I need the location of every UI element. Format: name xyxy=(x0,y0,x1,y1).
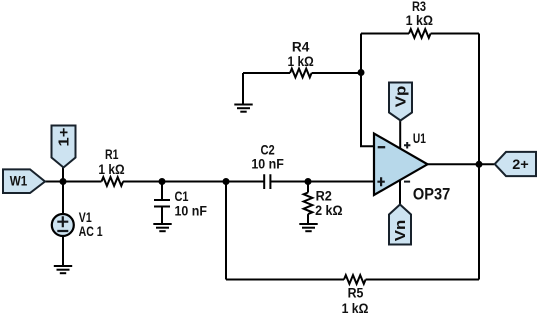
port W1 xyxy=(3,169,45,193)
svg-text:10 nF: 10 nF xyxy=(251,157,284,172)
wire R3 top right segment xyxy=(431,33,479,35)
svg-text:1+: 1+ xyxy=(57,128,73,147)
wire inverting input vertical xyxy=(361,34,374,147)
svg-text:R2: R2 xyxy=(316,189,332,204)
ground below R2 xyxy=(299,224,317,231)
wire V1 to ground xyxy=(62,236,64,266)
wire Vp supply pin xyxy=(399,121,401,150)
node junction R4/R3 xyxy=(358,69,365,76)
svg-text:W1: W1 xyxy=(10,174,28,189)
wire main signal line left of C2 xyxy=(44,181,264,183)
resistor R2 xyxy=(304,193,313,215)
svg-text:OP37: OP37 xyxy=(413,185,450,204)
svg-text:2+: 2+ xyxy=(512,157,529,172)
svg-text:U1: U1 xyxy=(413,131,426,146)
resistor R4 xyxy=(290,69,312,78)
op-amp U1 xyxy=(374,131,450,204)
svg-text:R4: R4 xyxy=(292,40,310,55)
node junction C1 xyxy=(159,178,166,185)
svg-text:C1: C1 xyxy=(175,189,189,204)
capacitor C1 xyxy=(154,200,170,207)
port Vn xyxy=(389,205,411,245)
op-amp negative supply pin marker xyxy=(404,181,410,183)
svg-text:1 kΩ: 1 kΩ xyxy=(406,13,433,28)
op-amp positive supply pin marker xyxy=(404,142,410,149)
svg-text:1 kΩ: 1 kΩ xyxy=(98,162,124,177)
wire R4 left leg to ground xyxy=(242,73,244,105)
ground below C1 xyxy=(153,224,171,231)
port 1+ xyxy=(52,126,76,168)
port 2+ xyxy=(495,152,536,176)
voltage source V1 xyxy=(52,210,103,239)
wire main signal line right of C2 to op-amp xyxy=(271,181,375,183)
op-amp inverting input marker xyxy=(378,146,386,148)
capacitor C2 xyxy=(264,174,270,189)
svg-text:C2: C2 xyxy=(260,142,274,157)
svg-text:AC 1: AC 1 xyxy=(79,224,103,239)
node A junction W1/V1 xyxy=(60,178,67,185)
wire op-amp output to 2+ port xyxy=(428,163,495,165)
wire R3 top left segment xyxy=(361,33,409,35)
wire bottom feedback left segment xyxy=(226,279,344,281)
wire vertical from 1+ port through node A to V1 xyxy=(62,168,64,215)
svg-text:Vn: Vn xyxy=(393,220,409,242)
resistor R1 xyxy=(102,177,124,186)
wire C1 branch xyxy=(161,182,163,225)
V1 polarity marks xyxy=(57,216,68,231)
svg-text:1 kΩ: 1 kΩ xyxy=(342,301,369,314)
node junction feedback tap xyxy=(223,178,230,185)
svg-text:V1: V1 xyxy=(79,210,92,225)
wire R4 horizontal xyxy=(243,72,361,74)
resistor R3 xyxy=(409,29,431,38)
ground below V1 xyxy=(54,266,72,273)
svg-text:R1: R1 xyxy=(105,147,119,162)
wire right vertical from R3 through output node to bottom feedback xyxy=(478,34,480,280)
op-amp non-inverting input marker xyxy=(377,177,384,186)
wire Vn supply pin xyxy=(399,180,401,206)
wire R2 branch xyxy=(307,182,309,225)
resistor R5 xyxy=(344,275,366,284)
svg-text:10 nF: 10 nF xyxy=(175,204,207,219)
svg-text:2 kΩ: 2 kΩ xyxy=(315,203,343,218)
wire bottom feedback right segment xyxy=(366,279,479,281)
node junction R2 xyxy=(305,178,312,185)
ground below R4 xyxy=(234,105,252,112)
svg-text:1 kΩ: 1 kΩ xyxy=(287,54,313,69)
wire feedback tap down from node B xyxy=(225,182,227,280)
port Vp xyxy=(389,83,412,121)
svg-text:Vp: Vp xyxy=(394,86,410,108)
svg-text:R5: R5 xyxy=(348,285,364,300)
node junction output xyxy=(476,161,483,168)
